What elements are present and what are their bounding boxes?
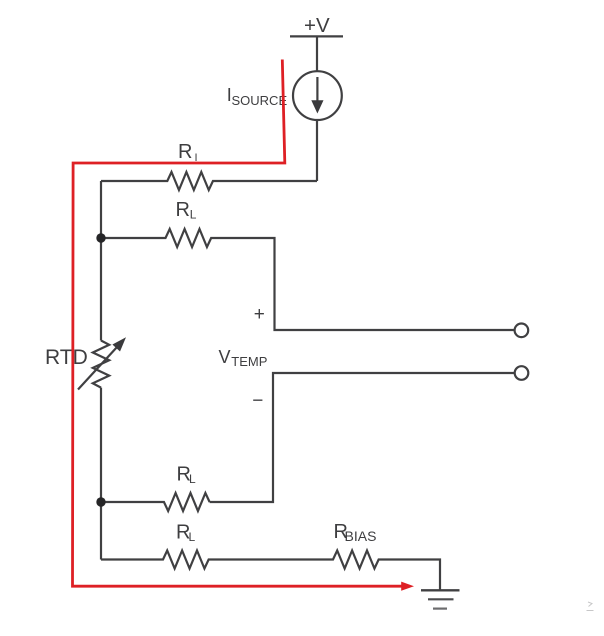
left rail wire lower <box>100 388 102 560</box>
svg-text:+: + <box>254 304 265 325</box>
current source I_SOURCE circle <box>293 71 342 120</box>
red current path wire <box>73 60 403 587</box>
label R_L row 2 <box>176 199 197 222</box>
node B junction dot <box>96 497 105 506</box>
svg-text:L: L <box>189 530 196 544</box>
left rail wire upper <box>100 181 102 341</box>
svg-text:−: − <box>252 391 263 412</box>
svg-text:SOURCE: SOURCE <box>232 93 288 108</box>
svg-text:R: R <box>178 141 192 163</box>
label V_TEMP <box>219 347 268 369</box>
svg-text:TEMP: TEMP <box>231 354 267 369</box>
resistor R_I row 1 with wires <box>101 172 317 190</box>
RTD arrow <box>78 337 126 389</box>
label R_BIAS <box>334 521 377 544</box>
label R_I <box>178 141 198 164</box>
RTD variable resistor zigzag <box>93 341 109 388</box>
ground <box>421 590 460 608</box>
terminal circle - output <box>515 366 529 380</box>
wire +V to current source <box>316 36 318 71</box>
label R_L row 4 <box>176 521 196 544</box>
terminal circle + output <box>515 324 529 338</box>
svg-text:L: L <box>190 208 197 222</box>
wire current source to row 1 <box>316 120 318 181</box>
svg-text:RTD: RTD <box>45 346 88 369</box>
resistor R_L row 3 with wires to - terminal <box>101 373 515 511</box>
resistor R_L row 4 and resistor R_BIAS with wires to ground <box>101 551 440 591</box>
svg-text:BIAS: BIAS <box>345 528 377 544</box>
label R_L row 3 <box>177 463 197 486</box>
red current path arrowhead <box>401 582 414 591</box>
svg-text:V: V <box>219 347 231 367</box>
svg-text:+V: +V <box>304 14 330 37</box>
current source arrow <box>311 77 323 114</box>
node A junction dot <box>96 233 105 242</box>
resistor R_L row 2 with wires to + terminal <box>101 229 515 330</box>
label I_SOURCE <box>227 85 288 108</box>
stray faint mark bottom right <box>587 602 594 611</box>
svg-text:L: L <box>189 472 196 486</box>
svg-text:R: R <box>176 199 190 221</box>
power rail +V bar <box>290 35 343 37</box>
